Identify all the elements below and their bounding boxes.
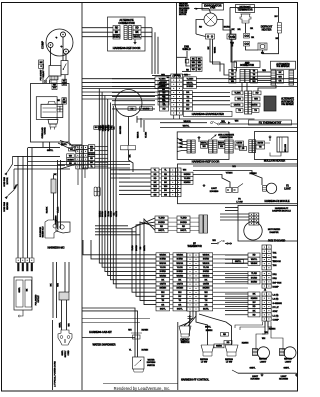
- svg-text:SUPPLY: SUPPLY: [65, 350, 67, 358]
- svg-text:HEATER: HEATER: [6, 202, 9, 210]
- svg-text:G-SENSE: G-SENSE: [273, 303, 283, 305]
- svg-text:DISPENS: DISPENS: [147, 362, 156, 364]
- svg-text:L2 (H): L2 (H): [273, 295, 279, 297]
- svg-text:RD: RD: [253, 255, 256, 257]
- svg-text:CONNECTION: CONNECTION: [219, 137, 233, 139]
- svg-text:WH: WH: [204, 292, 208, 294]
- svg-text:RD: RD: [253, 314, 256, 316]
- svg-text:WH/BK: WH/BK: [99, 210, 101, 217]
- svg-text:OVERLOAD: OVERLOAD: [41, 127, 44, 139]
- svg-text:SHIELD: SHIELD: [182, 48, 191, 51]
- svg-text:DR2: DR2: [273, 278, 278, 280]
- svg-text:BK/YL: BK/YL: [158, 230, 165, 232]
- svg-text:BU: BU: [164, 190, 167, 192]
- svg-text:BK: BK: [27, 288, 29, 291]
- svg-text:HOUSING: HOUSING: [279, 379, 289, 381]
- svg-text:WH/OR: WH/OR: [138, 131, 140, 138]
- evaporator fan label: [202, 4, 224, 11]
- svg-text:PTC START: PTC START: [40, 69, 43, 81]
- icemaker connector: [271, 70, 276, 85]
- svg-text:COND FAN: COND FAN: [3, 177, 6, 187]
- svg-text:DAMP: DAMP: [273, 286, 280, 289]
- svg-text:HARNESS-F2 MODULE: HARNESS-F2 MODULE: [264, 200, 290, 203]
- wires into j2: [225, 254, 248, 256]
- svg-text:RD: RD: [223, 334, 226, 336]
- svg-text:WH/BK: WH/BK: [159, 255, 166, 257]
- svg-text:GN/YL: GN/YL: [250, 367, 257, 369]
- svg-text:BK/YL: BK/YL: [180, 230, 187, 232]
- svg-text:WH: WH: [161, 292, 165, 294]
- staircase wires: [83, 240, 156, 255]
- wire trunk x52 lower: [52, 320, 54, 390]
- svg-text:RD: RD: [164, 178, 167, 180]
- svg-text:YL/WH: YL/WH: [146, 131, 148, 138]
- svg-text:SEE ALTERNATE: SEE ALTERNATE: [218, 134, 234, 137]
- refdoor connector bars 3: [225, 140, 229, 153]
- svg-text:GROUND: GROUND: [120, 125, 122, 134]
- wires j2 bottom fanout: [262, 321, 265, 334]
- svg-text:BU/RD: BU/RD: [136, 244, 138, 250]
- svg-text:LT SW: LT SW: [201, 362, 208, 364]
- damper hatch connector: [199, 215, 203, 233]
- refrig lt sw 1: [201, 345, 214, 352]
- ground mullion: [269, 139, 271, 142]
- svg-text:HOUSING: HOUSING: [210, 191, 219, 193]
- svg-text:BU: BU: [90, 162, 93, 164]
- wires into f2 grid from bundle: [111, 169, 131, 171]
- pill connectors: [121, 146, 136, 150]
- svg-text:BK: BK: [115, 32, 119, 34]
- rd/wh wire: [193, 171, 262, 186]
- svg-text:OR: OR: [161, 304, 165, 306]
- wires f2 left: [119, 169, 151, 171]
- svg-text:5: 5: [41, 66, 43, 68]
- svg-text:BU/RD: BU/RD: [203, 271, 210, 273]
- svg-text:TH2: TH2: [273, 257, 278, 259]
- svg-text:BR: BR: [186, 92, 189, 94]
- svg-text:YL/RD: YL/RD: [132, 245, 134, 251]
- light housing small: [203, 184, 205, 185]
- svg-text:WH: WH: [184, 75, 188, 77]
- svg-text:J1: J1: [264, 290, 267, 292]
- water dispenser switch: [133, 357, 145, 369]
- svg-text:WH: WH: [58, 283, 60, 287]
- f2 light bulb: [266, 183, 276, 193]
- svg-text:OR: OR: [250, 28, 254, 30]
- svg-text:WH/YL: WH/YL: [219, 142, 226, 144]
- svg-text:YL: YL: [164, 170, 167, 172]
- left verticals to plug: [17, 156, 19, 258]
- label boxes on bundle jog: [94, 126, 99, 130]
- compressor terminal R: [64, 49, 69, 54]
- svg-text:BK: BK: [276, 38, 279, 40]
- svg-text:TN: TN: [259, 147, 262, 149]
- run capacitor: [41, 104, 63, 117]
- credit strip: [103, 382, 178, 384]
- svg-text:RD: RD: [186, 105, 189, 107]
- svg-text:WH/RD: WH/RD: [203, 275, 210, 277]
- svg-text:RD: RD: [163, 109, 166, 111]
- svg-text:BU/RD: BU/RD: [158, 222, 165, 224]
- svg-text:BK: BK: [164, 182, 167, 184]
- relay labels top: [39, 60, 44, 64]
- svg-text:ALTERNATE: ALTERNATE: [281, 98, 294, 101]
- fan shield symbol: [186, 51, 188, 57]
- svg-text:HOUSING: HOUSING: [250, 379, 260, 381]
- svg-text:RD: RD: [256, 93, 259, 95]
- harness-ref door alternate connection box: [108, 17, 146, 51]
- svg-text:WH/TL: WH/TL: [134, 36, 142, 38]
- svg-text:GN: GN: [154, 194, 158, 196]
- power cord plug: [14, 277, 32, 310]
- svg-text:BK: BK: [57, 100, 60, 102]
- big box harness-ref door 2: [177, 132, 229, 160]
- svg-text:BK: BK: [279, 72, 282, 74]
- wire terminator down: [245, 23, 247, 33]
- svg-text:115: 115: [63, 84, 66, 86]
- svg-text:LIGHT: LIGHT: [284, 188, 291, 190]
- dispenser connector: [133, 335, 141, 339]
- fan loop wires: [196, 20, 204, 35]
- svg-text:YL: YL: [90, 166, 93, 168]
- svg-text:J4/J2 TO BOARD: J4/J2 TO BOARD: [268, 240, 286, 243]
- amp connector block: [229, 69, 236, 72]
- alt icemaker labels: [232, 91, 243, 95]
- water valve solenoid: [45, 220, 58, 238]
- svg-text:RD: RD: [198, 69, 201, 71]
- svg-text:RD: RD: [182, 226, 185, 228]
- svg-text:WH: WH: [192, 62, 196, 64]
- svg-text:A TYPICAL POWER CORD: A TYPICAL POWER CORD: [54, 361, 57, 387]
- overload bottom right box: [72, 146, 78, 150]
- ff right labels: [199, 253, 213, 257]
- svg-text:CONNECTION: CONNECTION: [118, 22, 134, 25]
- inline connector top left of j2: [225, 243, 232, 245]
- svg-text:CORD: CORD: [68, 350, 70, 356]
- wires ref door box left: [82, 27, 113, 29]
- mullion connector bars: [249, 140, 252, 153]
- svg-text:YL: YL: [154, 170, 157, 172]
- svg-text:TN: TN: [231, 71, 234, 73]
- svg-text:BU: BU: [167, 77, 170, 79]
- fan area L wires: [136, 116, 138, 123]
- svg-text:THERMISTOR: THERMISTOR: [187, 246, 202, 248]
- ff far left labels: [156, 253, 170, 257]
- svg-text:LIGHT: LIGHT: [252, 376, 259, 378]
- compressor terminal S: [61, 32, 66, 37]
- j2 grid mid: [262, 272, 267, 276]
- svg-text:BK/YL: BK/YL: [144, 244, 146, 250]
- automatic ice maker label: [271, 61, 296, 69]
- capacitor terminal grid: [57, 106, 60, 109]
- svg-text:WH: WH: [90, 146, 94, 148]
- compressor terminal M: [48, 43, 53, 48]
- wires to lamps: [189, 315, 191, 336]
- svg-text:BK: BK: [178, 279, 181, 281]
- svg-text:LT SW: LT SW: [236, 201, 243, 203]
- svg-text:WH/YL: WH/YL: [183, 126, 190, 128]
- svg-text:MOTORIZED: MOTORIZED: [268, 229, 281, 231]
- grid bottom stubs: [173, 115, 175, 119]
- refrig light 2: [280, 349, 285, 356]
- wires fan area to amp: [210, 58, 220, 72]
- svg-text:REFRIG: REFRIG: [259, 359, 267, 361]
- svg-text:GN/YL: GN/YL: [284, 367, 291, 369]
- wire overload down: [61, 142, 63, 146]
- svg-text:BK: BK: [198, 58, 201, 60]
- harness-evap/heater label: [184, 111, 233, 116]
- fill tube coil: [59, 292, 69, 300]
- svg-text:F2 THERMOSTAT: F2 THERMOSTAT: [259, 120, 282, 124]
- svg-text:BK: BK: [130, 154, 132, 157]
- svg-text:RD/WH: RD/WH: [142, 330, 149, 332]
- svg-text:WH: WH: [164, 186, 168, 188]
- svg-text:BU: BU: [186, 109, 189, 111]
- alternate automatic ice maker: [264, 96, 276, 111]
- svg-text:OR: OR: [204, 304, 208, 306]
- defrost terminator body: [241, 13, 251, 15]
- wires ref door box right: [141, 27, 152, 29]
- overload box: [31, 84, 70, 143]
- svg-text:YL/OR: YL/OR: [108, 211, 110, 217]
- labels right of condenser fan: [158, 81, 169, 85]
- svg-text:HARNESS-EVAP/HEATER: HARNESS-EVAP/HEATER: [192, 112, 224, 116]
- svg-text:WH: WH: [262, 70, 266, 72]
- svg-text:COMP: COMP: [41, 41, 45, 49]
- svg-text:OR: OR: [178, 304, 182, 306]
- svg-text:WH/OR: WH/OR: [159, 263, 166, 265]
- svg-text:BU/RD: BU/RD: [177, 271, 184, 273]
- row y119: [137, 118, 255, 120]
- svg-text:MOTOR: MOTOR: [7, 177, 9, 184]
- svg-text:ENERGY: ENERGY: [180, 340, 190, 342]
- svg-text:OR/TN: OR/TN: [160, 284, 167, 286]
- wire heater to valve: [53, 193, 55, 220]
- svg-text:RD: RD: [164, 174, 167, 176]
- svg-text:GB: GB: [186, 100, 190, 102]
- svg-text:GN: GN: [164, 194, 168, 196]
- wires under overload box: [42, 142, 44, 147]
- overload inner box: [36, 97, 57, 120]
- svg-text:MULLION HEATER: MULLION HEATER: [264, 160, 286, 163]
- svg-text:RD/TN: RD/TN: [257, 143, 263, 145]
- wires bundle to damper stacks: [95, 228, 132, 230]
- left mid vertical pair: [57, 160, 59, 229]
- wires ff left gap: [170, 254, 174, 256]
- terminal row: [16, 258, 21, 263]
- svg-text:RD/WH: RD/WH: [184, 182, 191, 184]
- svg-text:BU/WH: BU/WH: [206, 330, 213, 332]
- svg-text:OR: OR: [251, 37, 255, 39]
- mounting plate: [56, 222, 70, 233]
- mullion heater: [277, 137, 288, 152]
- wires ff bottom: [180, 311, 190, 326]
- j2 grid upper: [262, 245, 267, 249]
- svg-text:TN: TN: [161, 300, 164, 302]
- evap harness connector grid: [171, 74, 177, 78]
- defrost heater: [258, 43, 267, 50]
- motorized damper: [244, 222, 262, 240]
- svg-text:BU: BU: [253, 302, 256, 304]
- light housing wire: [232, 370, 238, 373]
- svg-text:RD: RD: [160, 226, 163, 228]
- svg-text:BK: BK: [51, 283, 53, 286]
- wires from stacks: [182, 70, 191, 72]
- svg-text:RD: RD: [154, 178, 157, 180]
- refrig lt sw 2: [225, 345, 238, 352]
- svg-text:REFRIG: REFRIG: [200, 359, 208, 361]
- svg-text:WATER VLV: WATER VLV: [42, 226, 45, 238]
- svg-text:TN: TN: [242, 148, 245, 150]
- inline connector right labels: [88, 145, 95, 149]
- fan connector left: [206, 34, 215, 39]
- svg-text:LIGHT: LIGHT: [285, 361, 292, 363]
- ff left labels: [173, 253, 187, 257]
- svg-text:WH/TL: WH/TL: [187, 82, 194, 84]
- damper stacks left: [155, 216, 168, 220]
- svg-text:RD: RD: [90, 158, 93, 160]
- wires inline connector bottom: [77, 169, 79, 185]
- svg-text:BK/WH: BK/WH: [67, 159, 74, 161]
- wire trunk x176 top: [176, 3, 178, 75]
- relay terminal: [44, 80, 47, 83]
- svg-text:BK: BK: [54, 174, 57, 176]
- wire y57 from trunk: [177, 56, 187, 58]
- svg-text:WH: WH: [212, 240, 216, 242]
- svg-text:WATER DISPENSER: WATER DISPENSER: [92, 344, 115, 347]
- svg-text:BU/RD: BU/RD: [160, 271, 167, 273]
- inline connector fan-in top: [60, 141, 76, 148]
- wires below fan connectors: [209, 39, 211, 58]
- svg-text:WH: WH: [237, 99, 241, 101]
- inline connector 3col: [76, 146, 80, 150]
- terminator connectors: [244, 34, 250, 39]
- svg-text:BU/RD: BU/RD: [187, 86, 194, 88]
- mullion labels inside: [256, 141, 265, 145]
- svg-text:DAMPER MODULE: DAMPER MODULE: [272, 210, 291, 213]
- svg-text:TH4: TH4: [273, 264, 278, 267]
- svg-text:WH: WH: [220, 146, 224, 148]
- svg-text:COMP: COMP: [273, 319, 280, 321]
- svg-text:TN: TN: [254, 110, 257, 112]
- f2 thermostat label: [249, 120, 292, 125]
- svg-text:TN: TN: [253, 71, 256, 73]
- svg-text:WH/BK: WH/BK: [251, 263, 258, 265]
- svg-text:YL/OR: YL/OR: [177, 267, 184, 269]
- svg-text:HEATER: HEATER: [262, 28, 272, 31]
- wires evap grid left: [112, 78, 155, 80]
- svg-text:BK: BK: [232, 29, 235, 31]
- svg-text:WH: WH: [262, 338, 266, 340]
- svg-text:BU: BU: [90, 150, 93, 152]
- svg-text:YL/RD: YL/RD: [180, 218, 187, 220]
- svg-text:OR/TN: OR/TN: [116, 210, 118, 216]
- damper box: [238, 205, 298, 241]
- svg-text:RD/WH: RD/WH: [249, 173, 257, 175]
- svg-text:WH/BK: WH/BK: [215, 46, 217, 53]
- svg-text:LIGHT: LIGHT: [260, 361, 267, 363]
- refdoor connector labels mid: [201, 141, 208, 145]
- svg-text:OR/TN: OR/TN: [234, 105, 241, 107]
- svg-text:BK: BK: [253, 294, 256, 296]
- svg-text:GN/YL: GN/YL: [19, 286, 21, 292]
- svg-text:S: S: [56, 36, 59, 39]
- svg-text:BK/WH: BK/WH: [176, 288, 183, 290]
- refdoor labels right: [218, 141, 225, 145]
- svg-text:GN/YL: GN/YL: [47, 150, 54, 152]
- svg-text:YL/RD: YL/RD: [158, 218, 165, 220]
- svg-text:RD: RD: [154, 174, 157, 176]
- connector bk left: [230, 35, 236, 40]
- refrig light 1: [253, 349, 258, 356]
- gy 115 labels: [62, 79, 67, 82]
- svg-text:BK/YL: BK/YL: [177, 308, 184, 310]
- svg-text:BU: BU: [95, 127, 98, 129]
- svg-text:BU: BU: [161, 296, 164, 298]
- svg-text:WH: WH: [278, 76, 282, 78]
- svg-text:HARNESS-REF DOOR: HARNESS-REF DOOR: [192, 159, 220, 163]
- wires evap grid right: [196, 78, 297, 80]
- svg-text:WH/RD: WH/RD: [159, 275, 166, 277]
- svg-text:BK: BK: [161, 279, 164, 281]
- rd label under fan: [128, 107, 136, 111]
- wires bottom-right routing: [240, 322, 265, 330]
- svg-text:YL/WH: YL/WH: [184, 178, 191, 180]
- svg-text:L1 (H): L1 (H): [273, 315, 279, 317]
- svg-text:TN: TN: [231, 74, 234, 76]
- svg-text:F2: F2: [286, 186, 289, 188]
- svg-text:WH: WH: [235, 121, 239, 123]
- plug ground tail: [21, 310, 24, 316]
- refdoor connector bars 2: [209, 140, 213, 153]
- svg-text:WH/BK: WH/BK: [160, 82, 167, 84]
- svg-text:HARNESS-REF DOOR: HARNESS-REF DOOR: [113, 46, 141, 50]
- svg-text:BU: BU: [154, 190, 157, 192]
- defrost loop right: [229, 7, 231, 34]
- svg-text:WH: WH: [202, 146, 206, 148]
- svg-text:STAT: STAT: [273, 310, 279, 313]
- svg-text:BU: BU: [275, 16, 278, 18]
- pill connectors bundle: [94, 187, 97, 196]
- svg-text:BK: BK: [205, 279, 208, 281]
- svg-text:TN: TN: [178, 300, 181, 302]
- svg-text:EVP FAN: EVP FAN: [273, 281, 282, 284]
- condensate pan heater capsule: [277, 23, 281, 33]
- wires amp to icemaker: [257, 71, 271, 73]
- svg-text:GN/BK: GN/BK: [216, 346, 223, 348]
- svg-text:RD/WH: RD/WH: [251, 298, 258, 300]
- svg-text:TN: TN: [253, 74, 256, 76]
- svg-text:WH: WH: [69, 155, 73, 157]
- arrow to condenser fan: [8, 156, 13, 171]
- fan connector right: [227, 34, 236, 39]
- svg-text:ICE MAKER: ICE MAKER: [281, 103, 294, 106]
- condenser fan motor: [115, 90, 142, 117]
- svg-text:RD: RD: [115, 27, 119, 29]
- svg-text:LT SW: LT SW: [226, 362, 233, 364]
- svg-text:REFRIG: REFRIG: [284, 359, 292, 361]
- svg-text:OUTLET: OUTLET: [38, 294, 40, 302]
- svg-text:BK: BK: [114, 126, 116, 129]
- gn/yl boxed label: [233, 260, 244, 264]
- svg-text:Rendered by LeadVenture, Inc.: Rendered by LeadVenture, Inc.: [114, 386, 171, 391]
- svg-text:BU/RD: BU/RD: [180, 222, 187, 224]
- wires inline connector right: [95, 146, 108, 148]
- svg-text:AUTOMATIC: AUTOMATIC: [281, 100, 294, 103]
- svg-text:YT/WH: YT/WH: [226, 173, 233, 175]
- svg-text:GN/YL: GN/YL: [59, 321, 61, 327]
- stack top right: [191, 57, 197, 61]
